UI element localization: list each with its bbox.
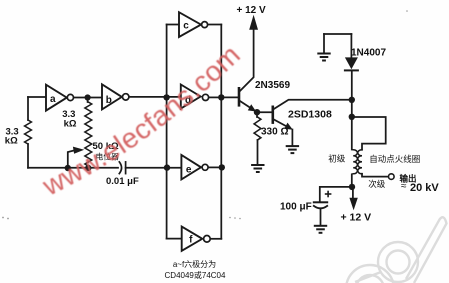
svg-text:初级: 初级: [328, 153, 346, 163]
arrow Q1 emitter: [248, 104, 256, 111]
svg-text:20 kV: 20 kV: [410, 182, 439, 194]
svg-text:2N3569: 2N3569: [255, 80, 290, 91]
inverter a: [46, 85, 74, 111]
wire node to 100uF cap: [320, 187, 352, 202]
wire f input: [167, 238, 182, 240]
output terminal circle: [389, 174, 395, 180]
wire resistor chain stub bottom: [87, 166, 89, 168]
ignition coil primary winding: [353, 150, 357, 174]
junction node output rail e: [219, 164, 225, 170]
wire pot wiper: [68, 151, 74, 168]
resistor R2 3.3k + pot 50k zigzag chain: [85, 102, 92, 166]
svg-text:2SD1308: 2SD1308: [288, 109, 332, 121]
wire cap to e input: [126, 167, 182, 169]
wire Q1 emitter node to Q2 base: [257, 111, 273, 113]
wire c output: [208, 24, 222, 26]
capacitor C2 100uF top plate: [314, 201, 327, 203]
wire f output: [210, 238, 221, 240]
svg-text:a~f六极分为: a~f六极分为: [173, 259, 216, 269]
watermark gray letter e: [346, 265, 394, 283]
inverter b: [102, 84, 129, 109]
transistor Q1 emitter: [239, 101, 250, 108]
speckle dots: [2, 10, 408, 219]
resistor R3 330 ohm zigzag: [254, 117, 261, 140]
junction node pot bottom: [85, 165, 91, 171]
junction node output rail main: [218, 94, 224, 100]
svg-text:100 μF: 100 μF: [280, 202, 312, 213]
svg-text:a: a: [50, 94, 56, 105]
wire secondary to output terminal: [362, 174, 388, 177]
arrow +12V bottom: [349, 198, 357, 210]
wire e output: [208, 166, 221, 168]
svg-text:b: b: [106, 95, 112, 106]
junction node input rail main: [163, 94, 169, 100]
transistor Q2 collector: [273, 100, 352, 110]
svg-text:kΩ: kΩ: [64, 118, 77, 129]
svg-text:c: c: [183, 21, 189, 32]
wire 330 ohm top stub: [256, 112, 258, 117]
wire +12V bottom arrow shaft: [352, 187, 354, 199]
wire diode top stub: [350, 34, 352, 57]
wire coil loop to secondary: [352, 117, 386, 150]
wire coil bottom to node: [351, 174, 353, 187]
wire ground stub left of diode: [323, 34, 325, 53]
wire output rail vertical: [220, 25, 222, 239]
wire Q2 emitter to ground: [291, 130, 293, 146]
junction node input rail cap line: [164, 164, 170, 170]
inverter d: [181, 85, 209, 109]
junction node Q1 emitter: [254, 109, 260, 115]
resistor R1 3.3k zigzag: [25, 120, 32, 144]
inverter f: [182, 227, 211, 251]
wire 100uF to ground: [320, 209, 322, 225]
svg-text:1N4007: 1N4007: [351, 47, 386, 58]
wire b output to d input: [129, 96, 181, 98]
capacitor C2 bottom curved plate: [314, 206, 327, 208]
transistor Q1 2N3569 base bar: [238, 88, 241, 105]
junction node after inverter a: [85, 94, 91, 100]
inverter e: [181, 155, 208, 179]
svg-text:≈: ≈: [401, 181, 407, 192]
arrow +12V top: [249, 15, 258, 30]
wire input rail vertical: [166, 25, 168, 239]
wire bottom rail: [28, 167, 118, 169]
svg-text:自动点火线圈: 自动点火线圈: [369, 154, 420, 164]
junction node coil top: [349, 114, 355, 120]
svg-text:0.01 μF: 0.01 μF: [106, 176, 139, 187]
diode D1 cathode bar: [345, 69, 358, 71]
ignition coil secondary winding: [358, 150, 362, 174]
svg-text:+ 12 V: + 12 V: [237, 5, 267, 16]
wire left vertical bottom segment: [27, 144, 29, 168]
junction node coil bottom: [349, 184, 355, 190]
wire d output to Q1 base: [221, 96, 239, 98]
svg-text:330 Ω: 330 Ω: [261, 127, 288, 138]
svg-text:次级: 次级: [368, 179, 386, 189]
svg-text:kΩ: kΩ: [5, 135, 18, 146]
inverter c: [179, 12, 208, 37]
ground G3 330 ohm: [251, 165, 264, 172]
ground G4 100uF: [314, 226, 327, 233]
junction node diode collector: [349, 97, 355, 103]
arrow pot wiper: [73, 147, 84, 154]
watermark red elecfans: [37, 39, 248, 202]
ground G2 Q2 emitter: [286, 146, 299, 153]
svg-text:e: e: [186, 165, 192, 176]
wire c input: [167, 24, 179, 26]
wire left vertical top segment: [27, 97, 29, 120]
capacitor C1 0.01uF left curved plate: [119, 162, 121, 174]
wire diode branch top: [324, 33, 351, 35]
wire diode to coil node: [351, 70, 353, 149]
label plus sign 100uF: [325, 191, 332, 198]
arrow Q2 emitter: [284, 123, 293, 130]
capacitor C1 right plate: [125, 162, 127, 174]
wire input to inverter a: [28, 96, 46, 98]
junction node wiper bottom: [65, 165, 71, 171]
wire d output: [209, 96, 222, 98]
wire resistor chain stub top: [87, 98, 89, 103]
wire 330 ohm to ground: [257, 140, 259, 164]
transistor Q1 collector: [239, 30, 253, 92]
diode D1 1N4007 triangle: [345, 57, 358, 69]
svg-text:CD4049或74C04: CD4049或74C04: [165, 270, 226, 280]
wire a output to b input: [74, 97, 102, 99]
transistor Q2 2SD1308 base bar: [271, 107, 274, 123]
transistor Q2 emitter: [273, 119, 287, 126]
ground G1 diode branch: [317, 54, 330, 61]
watermark gray letter d: [378, 217, 447, 283]
svg-text:+ 12 V: + 12 V: [341, 212, 372, 224]
